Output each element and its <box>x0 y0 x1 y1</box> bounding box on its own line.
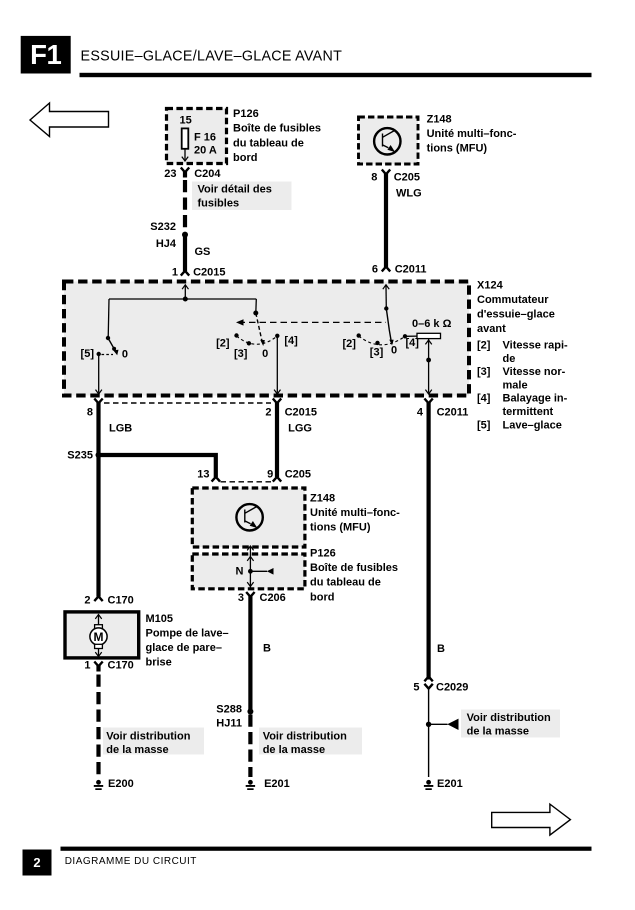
svg-text:male: male <box>503 379 528 391</box>
svg-text:C205: C205 <box>394 172 420 184</box>
arrow up at resistor <box>425 340 431 344</box>
svg-text:[2]: [2] <box>477 340 491 352</box>
MFU icon U-Z148 <box>374 128 400 154</box>
wire LGB pin8 down <box>96 403 100 597</box>
svg-text:glace de pare–: glace de pare– <box>146 642 222 654</box>
svg-text:E200: E200 <box>108 778 134 790</box>
svg-text:E201: E201 <box>437 778 463 790</box>
svg-text:0: 0 <box>391 345 397 357</box>
washer pump M105 box <box>65 612 139 658</box>
svg-text:1: 1 <box>172 267 178 279</box>
svg-text:d'essuie–glace: d'essuie–glace <box>477 309 555 321</box>
footer rule <box>61 847 592 851</box>
svg-text:C205: C205 <box>285 469 311 481</box>
fuse wire to border <box>184 149 186 160</box>
svg-text:avant: avant <box>477 323 506 335</box>
svg-text:Vitesse nor-: Vitesse nor- <box>503 366 566 378</box>
svg-text:Balayage in-: Balayage in- <box>503 393 568 405</box>
MFU box Z148 (top) <box>359 117 419 164</box>
motor brush bottom <box>95 644 103 648</box>
exit arrow pin4 <box>425 390 431 394</box>
svg-text:Z148: Z148 <box>310 493 335 505</box>
svg-text:0–6 k Ω: 0–6 k Ω <box>412 318 452 330</box>
svg-text:tions (MFU): tions (MFU) <box>427 143 488 155</box>
svg-text:B: B <box>437 643 445 655</box>
N pointer line <box>250 570 267 572</box>
connector C2011 pin6 <box>382 267 390 272</box>
connector C2029 lower half <box>424 684 432 689</box>
wire B pin4 down <box>427 403 431 680</box>
ground E200 <box>94 780 103 790</box>
right switch pivot node <box>384 306 388 310</box>
svg-text:5: 5 <box>413 682 419 694</box>
svg-text:du tableau de: du tableau de <box>310 577 381 589</box>
motor brush top <box>95 625 103 629</box>
svg-text:Z148: Z148 <box>427 114 452 126</box>
svg-text:15: 15 <box>180 114 192 126</box>
svg-text:4: 4 <box>417 407 424 419</box>
svg-text:1: 1 <box>84 660 90 672</box>
svg-text:tions (MFU): tions (MFU) <box>310 522 371 534</box>
pointer arrowhead (right) <box>447 719 458 730</box>
nav arrow left <box>30 103 109 137</box>
wire Z148 to P126 (upper stub) <box>249 547 251 555</box>
svg-text:de: de <box>503 353 516 365</box>
svg-text:M105: M105 <box>146 613 174 625</box>
wire B pin3 down <box>248 596 252 712</box>
connector C170 pin1 <box>94 662 102 667</box>
arrow down at M105 bottom <box>95 652 101 656</box>
svg-text:C2015: C2015 <box>193 267 225 279</box>
connector pin8 <box>94 399 102 404</box>
svg-text:HJ11: HJ11 <box>216 718 242 730</box>
svg-text:B: B <box>263 643 271 655</box>
svg-text:bord: bord <box>310 591 334 603</box>
svg-text:F1: F1 <box>30 39 61 70</box>
svg-text:de la masse: de la masse <box>263 744 325 756</box>
svg-text:du tableau de: du tableau de <box>233 137 304 149</box>
svg-text:LGG: LGG <box>288 423 312 435</box>
footer page badge <box>23 850 52 876</box>
svg-text:2: 2 <box>33 855 40 870</box>
middle switch contact arc <box>237 336 278 344</box>
svg-text:Commutateur: Commutateur <box>477 294 549 306</box>
svg-text:HJ4: HJ4 <box>156 238 177 250</box>
svg-text:C2011: C2011 <box>437 407 469 419</box>
wire pin6 to right switch <box>385 286 387 309</box>
middle switch contact [4] node <box>275 334 279 338</box>
svg-text:[3]: [3] <box>370 347 384 359</box>
connector C204 <box>181 168 189 173</box>
exit arrow pin8 <box>96 390 102 394</box>
fuse box P126 (lower) <box>192 554 305 589</box>
svg-text:C2029: C2029 <box>436 682 468 694</box>
connector C2015 pin1 <box>181 271 189 276</box>
wire pin1 to bus <box>184 286 186 300</box>
wire bus to left switch <box>107 299 110 338</box>
svg-text:S235: S235 <box>67 450 93 462</box>
splice S235 node <box>96 452 102 458</box>
svg-text:E201: E201 <box>264 778 290 790</box>
left switch blade <box>108 338 114 349</box>
bus wire <box>109 298 256 300</box>
svg-text:M: M <box>94 630 104 644</box>
svg-text:23: 23 <box>164 168 176 180</box>
svg-text:S232: S232 <box>150 221 176 233</box>
svg-text:Lave–glace: Lave–glace <box>503 419 562 431</box>
wire pin1 to E200 (dashed) <box>96 666 100 672</box>
svg-text:0: 0 <box>122 349 128 361</box>
svg-text:[3]: [3] <box>477 366 491 378</box>
note box: Voir distribution (middle) <box>259 728 362 755</box>
fuse F16 symbol <box>182 128 189 148</box>
left switch contact [5] node <box>97 352 101 356</box>
connector C206 pin3 <box>246 592 254 597</box>
connector pin4 <box>424 399 432 404</box>
connector pin2 <box>273 399 281 404</box>
N pointer arrowhead <box>267 568 274 575</box>
svg-text:[3]: [3] <box>234 348 248 360</box>
motor wire top <box>98 615 100 625</box>
svg-text:[2]: [2] <box>342 338 356 350</box>
pointer line to note (right) <box>429 723 448 725</box>
svg-text:ESSUIE–GLACE/LAVE–GLACE AVANT: ESSUIE–GLACE/LAVE–GLACE AVANT <box>81 48 343 64</box>
connector pin9 <box>273 477 281 482</box>
svg-text:P126: P126 <box>233 108 259 120</box>
right switch contact [3] node <box>375 341 379 345</box>
svg-text:Voir distribution: Voir distribution <box>106 731 190 743</box>
svg-text:3: 3 <box>238 592 244 604</box>
middle switch contact [2] node <box>234 333 238 337</box>
MFU icon lower <box>236 504 262 530</box>
node at pin1/bus <box>183 297 188 302</box>
svg-text:[4]: [4] <box>284 335 298 347</box>
svg-text:F 16: F 16 <box>194 131 216 143</box>
svg-text:Vitesse rapi-: Vitesse rapi- <box>503 340 569 352</box>
svg-text:termittent: termittent <box>503 406 554 418</box>
connector C205 pin8 <box>382 170 390 175</box>
note box: Voir detail des fusibles <box>192 182 292 211</box>
svg-text:8: 8 <box>371 172 377 184</box>
svg-text:[5]: [5] <box>477 419 491 431</box>
svg-text:13: 13 <box>197 469 209 481</box>
wire [4] to pin2 <box>276 336 278 393</box>
middle switch contact [3] node <box>247 341 251 345</box>
connector pin13 <box>212 477 220 482</box>
svg-text:GS: GS <box>195 246 211 258</box>
entry arrow pin1 <box>182 285 188 289</box>
nav arrow right <box>492 804 571 835</box>
exit arrow pin2 <box>274 390 280 394</box>
wire S232 to pin1 C2015 (GS) <box>183 235 187 271</box>
junction node (right) <box>426 722 431 727</box>
svg-text:Unité multi–fonc-: Unité multi–fonc- <box>427 128 517 140</box>
node N <box>248 569 253 574</box>
header underline <box>80 73 592 77</box>
motor wire bottom <box>98 649 100 657</box>
resistor 0-6 kOhm <box>417 333 441 338</box>
MFU box Z148 (lower) <box>192 488 305 547</box>
arrow down at P126 bottom <box>247 582 253 586</box>
svg-text:2: 2 <box>265 407 271 419</box>
svg-text:C2015: C2015 <box>285 407 317 419</box>
svg-text:Boîte de fusibles: Boîte de fusibles <box>233 123 321 135</box>
wire C2029 to E201 <box>428 688 430 777</box>
node on resistor wire <box>426 358 431 363</box>
note box: Voir distribution (right) <box>461 710 560 738</box>
splice S288 node <box>247 709 253 715</box>
left switch dashed throw <box>102 354 114 356</box>
svg-text:Voir distribution: Voir distribution <box>467 712 551 724</box>
right switch contact [2] node <box>357 333 361 337</box>
right switch contact arc <box>359 336 405 345</box>
svg-text:C2011: C2011 <box>395 264 427 276</box>
svg-text:2: 2 <box>84 594 90 606</box>
arrow up at P126 top <box>247 557 253 561</box>
svg-text:9: 9 <box>267 469 273 481</box>
wire [5] to pin8 <box>98 354 100 393</box>
svg-text:Voir distribution: Voir distribution <box>263 731 347 743</box>
arrow up into Z148 bottom <box>247 546 253 550</box>
svg-text:brise: brise <box>146 657 172 669</box>
mechanical link dashed <box>239 321 387 323</box>
connector link dashed 8-2 <box>104 402 271 404</box>
connector link dashed 13-9 <box>221 481 273 483</box>
svg-text:[5]: [5] <box>81 348 95 360</box>
svg-text:fusibles: fusibles <box>198 198 240 210</box>
svg-text:6: 6 <box>372 264 378 276</box>
entry arrow pin6 <box>383 285 389 289</box>
svg-text:Pompe de lave–: Pompe de lave– <box>146 628 229 640</box>
svg-text:[4]: [4] <box>477 393 491 405</box>
splice S232 node <box>182 232 188 238</box>
wire S235 branch to pin13 <box>99 455 216 477</box>
wiper switch box X124 <box>64 282 469 396</box>
wire LGG pin2 down <box>275 403 279 478</box>
wire N through P126 <box>249 554 251 589</box>
svg-text:P126: P126 <box>310 548 336 560</box>
svg-text:C170: C170 <box>108 594 134 606</box>
svg-text:[2]: [2] <box>216 337 230 349</box>
svg-text:C204: C204 <box>194 168 221 180</box>
right switch contact [4] node <box>403 334 407 338</box>
wire WLG <box>384 173 388 267</box>
arrow up at M105 top <box>95 615 101 619</box>
svg-text:bord: bord <box>233 152 257 164</box>
svg-text:C170: C170 <box>108 660 134 672</box>
svg-text:de la masse: de la masse <box>106 744 168 756</box>
wire resistor to pin4 <box>428 339 430 393</box>
svg-text:Boîte de fusibles: Boîte de fusibles <box>310 562 398 574</box>
note box: Voir distribution (left) <box>103 728 204 755</box>
svg-text:N: N <box>236 566 244 578</box>
wire C204 to S232 (dashed) <box>183 172 187 178</box>
svg-text:de la masse: de la masse <box>467 726 529 738</box>
fuse box P126 (top) <box>167 109 227 164</box>
svg-text:LGB: LGB <box>109 423 132 435</box>
wire S288 to E201 (dashed) <box>248 715 252 778</box>
connector C2029 upper half <box>424 677 432 682</box>
header F1 badge <box>21 36 71 74</box>
ground E201 (middle) <box>246 780 255 790</box>
svg-text:Unité multi–fonc-: Unité multi–fonc- <box>310 507 400 519</box>
left switch pivot node <box>106 336 110 340</box>
middle switch pivot node <box>253 311 258 316</box>
svg-text:Voir détail des: Voir détail des <box>198 183 272 195</box>
middle switch blade (dashed) <box>256 313 262 341</box>
connector C170 pin2 <box>94 596 102 601</box>
wire bus to middle switch <box>255 299 257 313</box>
wire [4] to resistor <box>405 335 417 337</box>
svg-text:DIAGRAMME DU CIRCUIT: DIAGRAMME DU CIRCUIT <box>65 856 197 867</box>
svg-text:20 A: 20 A <box>194 145 217 157</box>
svg-text:8: 8 <box>87 407 93 419</box>
arrow down at fusebox border <box>182 157 188 161</box>
right switch blade <box>386 309 391 341</box>
svg-text:0: 0 <box>262 348 268 360</box>
svg-text:C206: C206 <box>260 592 286 604</box>
ground E201 (right) <box>424 780 433 790</box>
svg-text:X124: X124 <box>477 280 504 292</box>
motor M105 circle <box>90 628 107 645</box>
svg-text:WLG: WLG <box>396 187 422 199</box>
svg-text:S288: S288 <box>216 704 242 716</box>
